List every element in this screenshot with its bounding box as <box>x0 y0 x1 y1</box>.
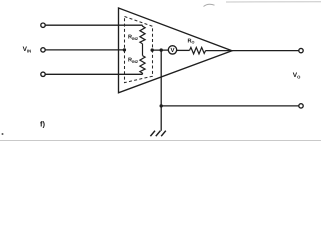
node dot: ground tap <box>160 48 163 51</box>
node dot: bottom rail junction <box>160 104 163 107</box>
input terminal 2 (middle) <box>41 48 45 52</box>
input terminal 3 (bottom) <box>41 72 45 76</box>
output terminal (bottom right) <box>299 104 303 108</box>
faint page rule <box>0 140 321 142</box>
svg-text:f): f) <box>40 119 45 128</box>
ground wire (vertical) <box>160 50 162 131</box>
output wire to terminal <box>232 50 299 52</box>
wire input 3 <box>45 73 142 75</box>
op-amp triangle <box>119 8 233 93</box>
resistor Ro <box>190 47 206 54</box>
input terminal 1 (top) <box>41 23 45 27</box>
resistor Rin2 (bottom) <box>140 56 145 75</box>
svg-text:V: V <box>170 47 174 54</box>
dependent source V (circle) <box>168 46 176 54</box>
wire: dashed box to source V <box>152 49 168 51</box>
wire between resistors <box>142 44 144 56</box>
bottom rail wire <box>161 105 299 107</box>
wire: Ro to apex <box>206 50 233 52</box>
ground <box>150 131 165 137</box>
resistor Rin2 (top) <box>140 25 145 44</box>
wire: source V to Ro <box>177 49 190 51</box>
scan artifact: faint squiggle <box>204 4 215 6</box>
node dot: middle wire at dashed box <box>123 48 126 51</box>
node dot: dashed box right edge <box>151 48 154 51</box>
wire input 1 <box>45 24 142 26</box>
speck at left edge <box>2 133 4 135</box>
wire input 2 <box>45 49 125 51</box>
output terminal (top right) <box>299 48 303 52</box>
scan artifact: faint top-right edge line <box>226 1 321 3</box>
dashed box (input model boundary) <box>125 17 153 83</box>
